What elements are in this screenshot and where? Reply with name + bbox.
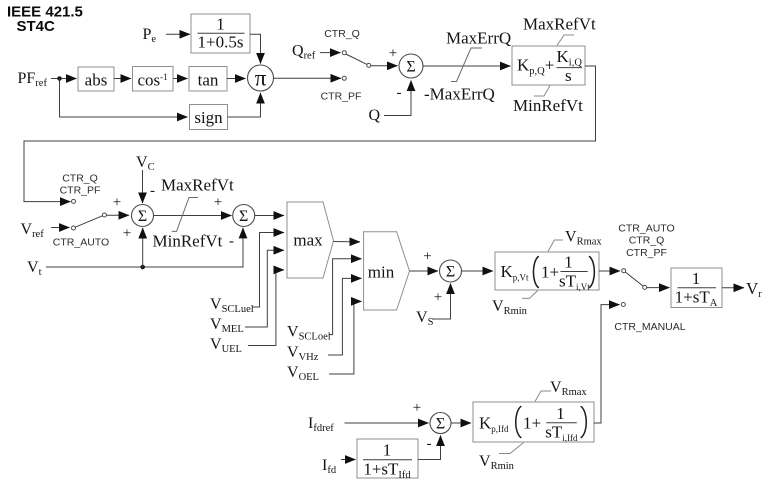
wire Vt up into S2: [142, 228, 144, 267]
wire Ifdref to summer S5: [345, 422, 429, 424]
svg-text:1: 1: [383, 441, 392, 460]
svg-text:-: -: [229, 234, 234, 250]
svg-text:PFref: PFref: [18, 70, 48, 89]
wire KIfd output up to CTR_MANUAL contact: [594, 305, 620, 423]
svg-text:abs: abs: [85, 71, 108, 90]
svg-text:MinRefVt: MinRefVt: [153, 232, 223, 251]
wire VVHz to min: [328, 278, 362, 355]
switch contact auto (row2 output): [622, 269, 626, 273]
wire S4 to block KVt: [462, 270, 494, 272]
wire VS to S4: [432, 284, 451, 320]
wire S1 to block KQ: [423, 65, 511, 67]
summer S5: [430, 413, 451, 434]
wire abs to cos-1: [114, 78, 131, 80]
svg-text:Ifdref: Ifdref: [308, 415, 334, 434]
wire S5 to block KIfd: [451, 422, 471, 424]
svg-text:CTR_Q: CTR_Q: [629, 235, 665, 247]
callout VRmin to KVt: [522, 291, 538, 299]
svg-text:-: -: [150, 183, 155, 199]
block tan: [189, 67, 227, 92]
svg-text:+: +: [123, 226, 131, 242]
block TA transfer 1/(1+sTA): [671, 268, 722, 309]
wire Vref to contact: [51, 227, 70, 229]
svg-text:VRmin: VRmin: [479, 453, 515, 472]
wire tan to multiplier: [227, 78, 246, 80]
wire Q to summer S1: [384, 81, 411, 116]
svg-text:CTR_Q: CTR_Q: [324, 28, 360, 40]
switch lever row1: [346, 54, 367, 65]
svg-text:VS: VS: [416, 309, 434, 328]
svg-text:Vt: Vt: [27, 259, 42, 278]
svg-text:CTR_PF: CTR_PF: [321, 91, 362, 103]
svg-text:CTR_AUTO: CTR_AUTO: [53, 237, 109, 249]
wire VMEL to max: [245, 250, 284, 327]
block sign: [190, 105, 228, 130]
wire min to summer S4: [410, 270, 439, 272]
svg-text:VUEL: VUEL: [210, 336, 242, 355]
summer S4: [440, 260, 462, 282]
svg-text:Q: Q: [369, 107, 381, 124]
svg-text:sign: sign: [194, 108, 223, 127]
svg-text:+: +: [113, 195, 121, 211]
svg-text:Σ: Σ: [406, 59, 415, 76]
svg-text:+: +: [434, 290, 442, 306]
svg-text:Qref: Qref: [292, 43, 316, 62]
summer S2: [132, 205, 154, 227]
svg-text:+: +: [214, 195, 222, 211]
switch contact CTR_MANUAL: [621, 303, 625, 307]
summer S3: [233, 205, 255, 227]
block B1 transfer function 1/(1+0.5s): [191, 14, 250, 53]
svg-text:VRmin: VRmin: [492, 298, 528, 317]
switch pivot row1: [367, 63, 371, 67]
switch pivot row2: [102, 213, 106, 217]
switch contact CTR_PF (row1): [342, 76, 346, 80]
wire S2 to S3: [154, 215, 232, 217]
svg-text:CTR_Q: CTR_Q: [62, 173, 98, 185]
block KIfd proportional-integral Kp,Ifd(1+1/sTi,Ifd): [473, 402, 594, 443]
svg-text:MaxErrQ: MaxErrQ: [446, 29, 511, 48]
svg-text:1+: 1+: [523, 414, 541, 433]
switch lever output: [625, 272, 643, 286]
wire KQ output feedback to row2 switch: [24, 66, 596, 202]
svg-text:VVHz: VVHz: [287, 344, 319, 363]
junction dot PFref node: [57, 76, 62, 81]
svg-text:ST4C: ST4C: [17, 18, 56, 35]
wire PFref to abs: [51, 78, 77, 80]
svg-text:Ifd: Ifd: [322, 457, 337, 476]
callout MinRefVt to KQ: [534, 86, 550, 97]
svg-text:1+0.5s: 1+0.5s: [198, 33, 244, 52]
switch contact CTR_AUTO: [72, 226, 76, 230]
switch contact CTR_Q (row1): [342, 51, 346, 55]
wire switch to block TA: [647, 287, 670, 289]
block KVt proportional-integral Kp,Vt(1+1/sTi,Vt): [495, 252, 599, 292]
wire switch to summer S2: [107, 214, 130, 216]
wire VC down to summer S2: [142, 170, 144, 203]
svg-text:π: π: [255, 66, 267, 91]
svg-text:1: 1: [556, 404, 565, 423]
callout MaxRefVt to KQ: [557, 35, 574, 46]
svg-text:1: 1: [216, 15, 225, 34]
svg-text:1: 1: [692, 269, 701, 288]
svg-text:Σ: Σ: [436, 416, 445, 433]
junction dot Vt node: [140, 265, 145, 270]
svg-text:MaxRefVt: MaxRefVt: [523, 15, 596, 34]
callout VRmax to KIfd: [535, 391, 551, 402]
wire Vt main run: [46, 228, 243, 267]
switch pivot output: [643, 285, 647, 289]
svg-text:VSCLoel: VSCLoel: [287, 324, 331, 343]
svg-text:Vr: Vr: [746, 279, 762, 300]
limiter symbol MaxErrQ: [451, 48, 482, 82]
wire cos-1 to tan: [173, 78, 188, 80]
wire B1 output to multiplier top: [250, 34, 261, 63]
limiter symbol MaxRefVt row2: [172, 198, 198, 232]
wire VUEL to max: [248, 270, 284, 346]
svg-text:VRmax: VRmax: [565, 229, 602, 248]
svg-text:MaxRefVt: MaxRefVt: [161, 176, 234, 195]
multiplier pi junction: [248, 65, 274, 91]
block KQ PI regulator Kp,Q+Ki,Q/s: [512, 46, 585, 85]
wire Qref to CTR_Q contact: [320, 52, 341, 54]
wire VSCLuel to max: [252, 233, 284, 308]
switch contact CTR_Q/CTR_PF (row2): [72, 199, 76, 203]
wire VOEL to min: [329, 301, 362, 374]
svg-text:-MaxErrQ: -MaxErrQ: [424, 85, 495, 104]
svg-text:CTR_MANUAL: CTR_MANUAL: [614, 321, 685, 333]
svg-text:Vref: Vref: [21, 221, 45, 240]
block abs: [78, 67, 114, 91]
svg-text:s: s: [565, 66, 572, 85]
svg-text:Pe: Pe: [143, 26, 157, 45]
block BIfd transfer 1/(1+sTIfd): [357, 439, 418, 481]
svg-text:min: min: [368, 263, 395, 282]
svg-text:Σ: Σ: [138, 208, 147, 225]
svg-text:+: +: [413, 400, 421, 416]
svg-text:VOEL: VOEL: [287, 364, 319, 383]
svg-text:VC: VC: [136, 154, 155, 173]
wire Pe to block B1: [166, 33, 190, 35]
switch lever row2: [75, 216, 103, 228]
summer S1: [399, 54, 423, 78]
svg-text:CTR_PF: CTR_PF: [626, 247, 667, 259]
svg-text:max: max: [293, 231, 323, 250]
block max selector: [287, 202, 334, 278]
wire Ifd to block BIfd: [341, 459, 356, 461]
svg-text:VMEL: VMEL: [210, 316, 244, 335]
wire VSCLoel to min: [329, 259, 362, 335]
svg-text:MinRefVt: MinRefVt: [513, 96, 583, 115]
block min selector: [364, 232, 410, 310]
svg-text:CTR_AUTO: CTR_AUTO: [618, 222, 674, 234]
svg-text:Σ: Σ: [446, 264, 455, 281]
wire switch to summer S1: [371, 65, 398, 67]
wire PFref down to sign: [60, 79, 188, 118]
svg-text:1: 1: [564, 253, 573, 272]
wire S3 to max selector: [255, 215, 284, 217]
wire sign output to multiplier bottom: [228, 93, 261, 117]
svg-text:Σ: Σ: [239, 208, 248, 225]
svg-text:+: +: [423, 249, 431, 265]
title IEEE 421.5 ST4C: [7, 4, 83, 36]
wire KVt to auto contact: [599, 270, 620, 272]
svg-text:+: +: [389, 46, 397, 62]
svg-text:1+: 1+: [541, 263, 559, 282]
callout VRmin to KIfd: [499, 443, 524, 454]
svg-text:-: -: [427, 436, 432, 452]
svg-text:-: -: [397, 85, 402, 101]
wire BIfd up to S5: [418, 436, 441, 460]
callout VRmax to KVt: [548, 240, 563, 252]
block cos-1: [133, 67, 174, 92]
svg-text:VSCLuel: VSCLuel: [210, 296, 254, 315]
svg-text:VRmax: VRmax: [550, 379, 587, 398]
wire multiplier output to CTR_PF contact: [274, 77, 342, 79]
wire TA to Vr output: [722, 287, 744, 289]
svg-text:CTR_PF: CTR_PF: [60, 185, 101, 197]
svg-text:tan: tan: [198, 71, 219, 90]
wire max to min: [334, 241, 361, 243]
